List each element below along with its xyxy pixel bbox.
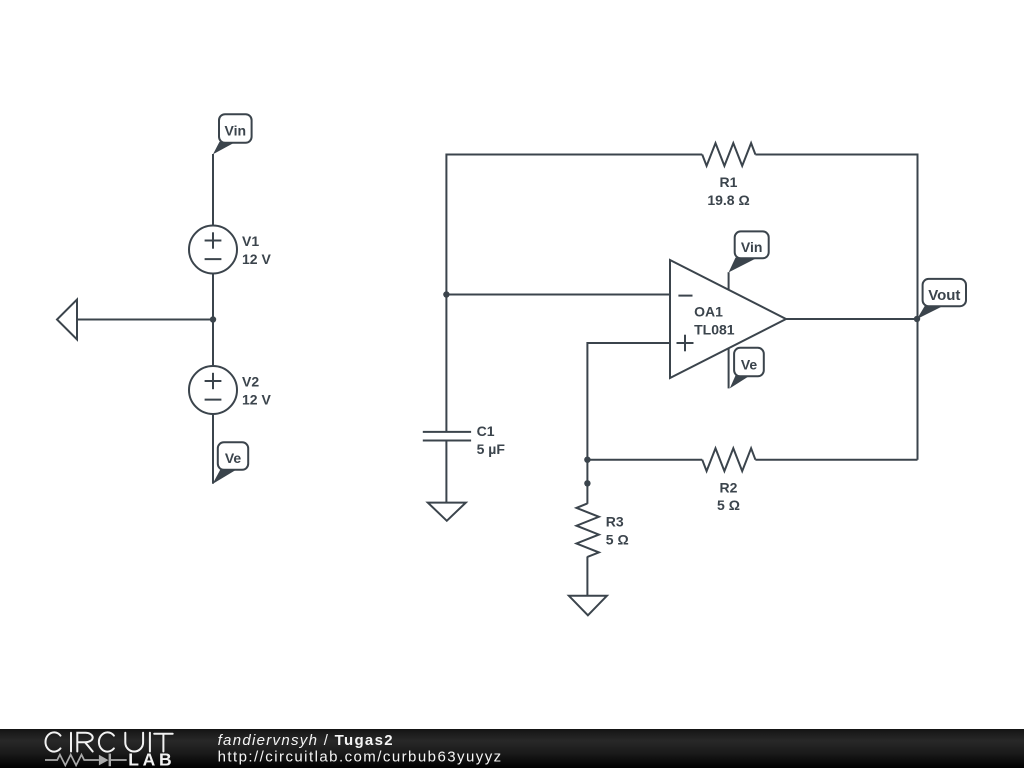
svg-text:12 V: 12 V <box>242 392 271 408</box>
CircuitLab logo: CIRCUIT letters <box>45 732 172 751</box>
resistor R2 <box>702 448 755 513</box>
flag Ve (left) <box>213 442 249 484</box>
svg-text:Vin: Vin <box>741 239 763 255</box>
voltage source V1 <box>189 226 271 274</box>
wire (top right segment) <box>755 155 917 460</box>
wire <box>445 441 447 503</box>
node <box>584 480 590 486</box>
svg-text:http://circuitlab.com/curbub63: http://circuitlab.com/curbub63yuyyz <box>218 749 503 766</box>
node <box>584 457 590 463</box>
svg-text:5 µF: 5 µF <box>477 441 506 457</box>
flag Vin (op-amp V+) <box>729 231 769 272</box>
wire (R2 left lead) <box>587 459 702 461</box>
svg-text:Vin: Vin <box>225 123 247 139</box>
svg-text:Ve: Ve <box>225 450 242 466</box>
svg-text:5 Ω: 5 Ω <box>606 531 629 547</box>
node <box>443 291 449 297</box>
resistor R3 <box>577 503 629 557</box>
resistor R1 <box>702 143 755 208</box>
wire <box>586 460 588 504</box>
svg-text:TL081: TL081 <box>694 322 735 338</box>
svg-text:Ve: Ve <box>741 356 758 372</box>
wire <box>212 414 214 484</box>
ground (under R3) <box>569 596 607 616</box>
flag Vout <box>917 279 966 319</box>
svg-text:5 Ω: 5 Ω <box>717 497 740 513</box>
svg-text:V1: V1 <box>242 233 259 249</box>
wire (output) <box>786 318 918 320</box>
voltage source V2 <box>189 366 271 414</box>
wire <box>77 319 213 321</box>
svg-text:19.8 Ω: 19.8 Ω <box>707 192 749 208</box>
svg-text:C1: C1 <box>477 423 495 439</box>
svg-text:R3: R3 <box>606 514 624 530</box>
svg-text:Vout: Vout <box>928 287 960 304</box>
svg-text:R1: R1 <box>720 174 738 190</box>
wire (to inverting input) <box>446 294 670 296</box>
node <box>914 316 920 322</box>
svg-text:fandiervnsyh / Tugas2: fandiervnsyh / Tugas2 <box>218 732 394 749</box>
wire <box>212 154 214 226</box>
wire <box>586 557 588 596</box>
flag Ve (op-amp V-) <box>730 348 764 389</box>
flag Vin (left) <box>213 114 252 154</box>
ground (under C1) <box>428 503 466 521</box>
wire (to non-inverting input) <box>587 343 670 460</box>
CircuitLab logo: resistor-diode squiggle <box>45 754 127 767</box>
svg-text:R2: R2 <box>720 479 738 495</box>
wire (V- stub) <box>728 349 730 389</box>
svg-text:LAB: LAB <box>128 750 175 768</box>
svg-text:12 V: 12 V <box>242 251 271 267</box>
wire (top left segment) <box>446 155 702 432</box>
node <box>210 316 216 322</box>
wire (V+ stub) <box>728 272 730 290</box>
wire <box>212 274 214 367</box>
op-amp OA1 <box>670 260 786 378</box>
svg-text:OA1: OA1 <box>694 304 723 320</box>
wire (R2 right lead) <box>755 459 917 461</box>
svg-text:V2: V2 <box>242 374 259 390</box>
capacitor C1 <box>423 423 506 457</box>
ground (left-pointing) <box>57 300 77 340</box>
